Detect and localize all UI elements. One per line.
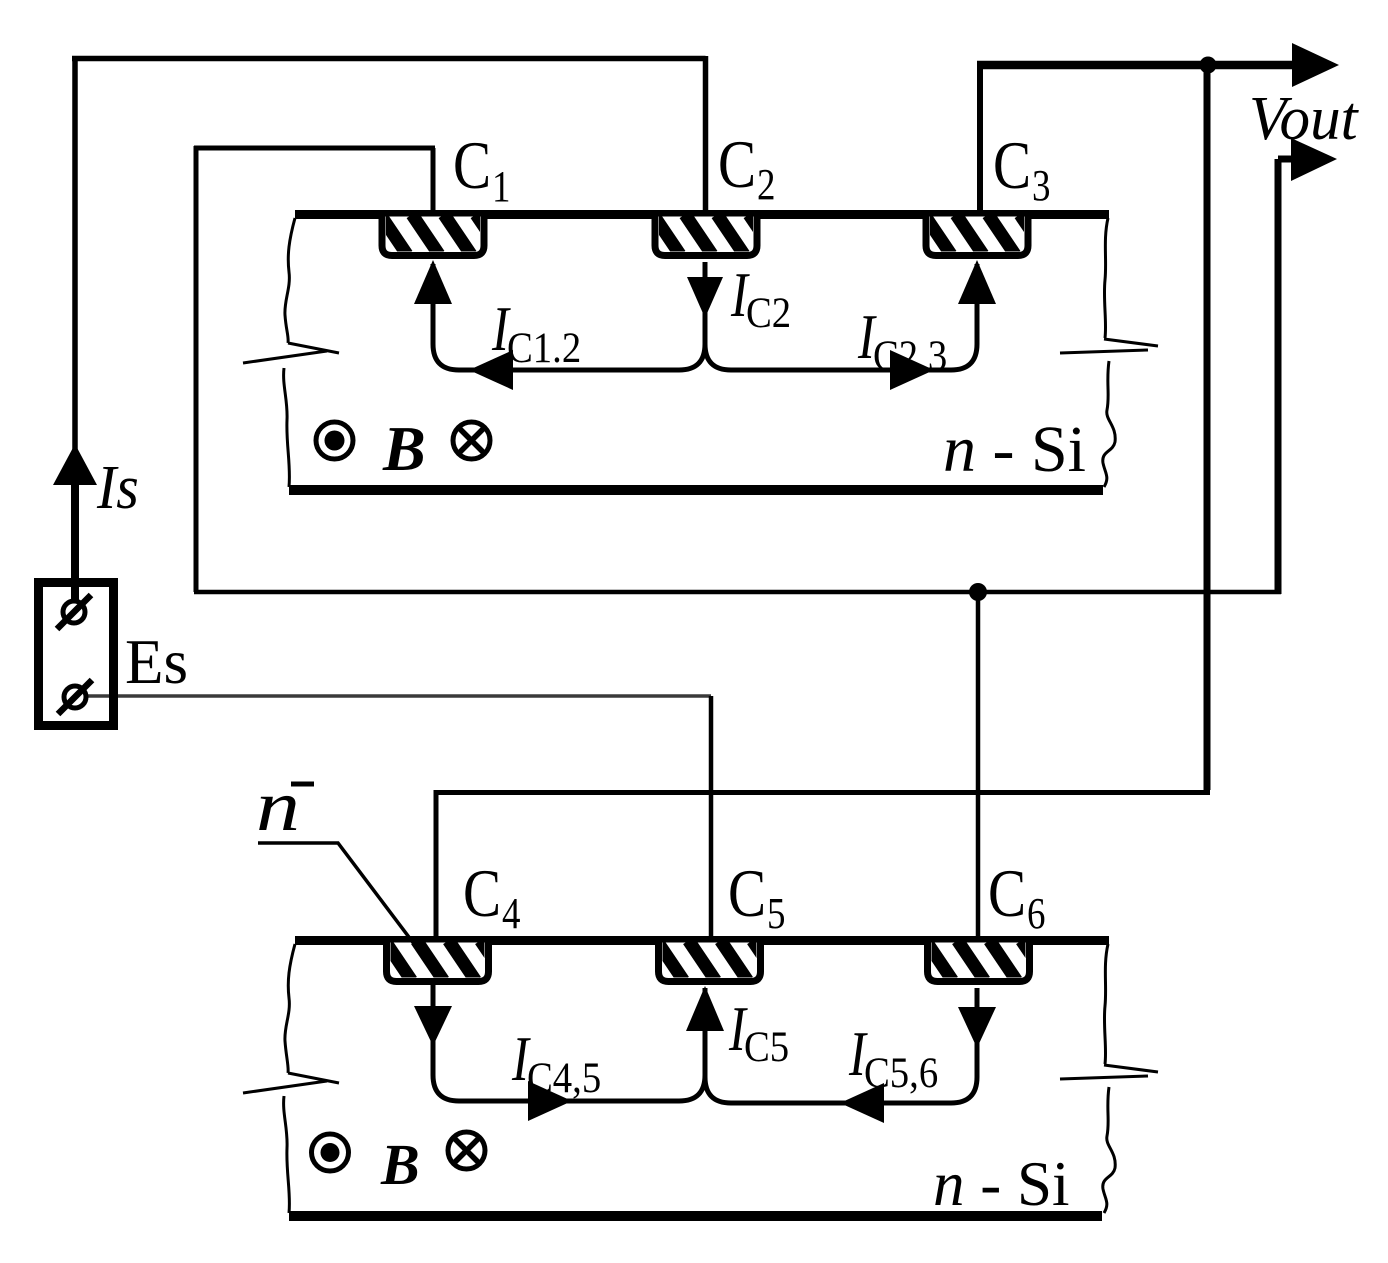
svg-text:C5,6: C5,6 <box>864 1049 938 1096</box>
terminal Es bottom <box>64 686 86 708</box>
wire junction down to C6 <box>976 592 981 944</box>
svg-text:C1.2: C1.2 <box>507 324 581 371</box>
svg-text:C: C <box>988 855 1026 931</box>
svg-text:C4,5: C4,5 <box>527 1054 601 1101</box>
n-Si block 2 right edge <box>1104 944 1108 1064</box>
wire C1 loop: C1 up over to left, down, across to Vout lower arrow <box>194 146 1297 594</box>
svg-text:C5: C5 <box>744 1023 789 1070</box>
current path C6 to C5 <box>705 988 977 1103</box>
break symbol block 1 right <box>1104 339 1158 346</box>
svg-text:C: C <box>993 127 1031 203</box>
arrow Vout lower terminal <box>1291 138 1337 181</box>
svg-text:B: B <box>380 1132 420 1197</box>
contact C6 <box>926 941 1049 982</box>
svg-text:C: C <box>728 855 766 931</box>
svg-text:Es: Es <box>125 627 188 697</box>
wire Es bottom terminal to C5 <box>88 694 711 698</box>
svg-text:n - Si: n - Si <box>943 413 1086 486</box>
svg-text:6: 6 <box>1027 889 1045 938</box>
svg-text:4: 4 <box>502 889 520 938</box>
svg-text:Vout: Vout <box>1249 84 1359 153</box>
junction node on wire to C6 <box>969 583 987 601</box>
svg-text:C2: C2 <box>746 289 791 336</box>
wire junction down and across to C4 <box>436 65 1210 944</box>
n-Si block 1 right edge <box>1104 218 1108 338</box>
svg-text:C: C <box>453 127 491 203</box>
n-Si block 1 left edge <box>285 218 295 343</box>
contact C3 <box>924 215 1047 256</box>
n-Si block 2 bottom surface <box>289 1211 1102 1221</box>
wire C3 to Vout upper arrow <box>977 65 1297 212</box>
break symbol block 1 left <box>288 343 339 353</box>
B field into-plane symbol block 1 <box>453 422 490 459</box>
n-Si block 2 top surface <box>295 936 1109 945</box>
arrow Is (current direction up) <box>53 444 97 485</box>
svg-text:3: 3 <box>1032 161 1050 210</box>
arrow I_C2 (down) <box>687 277 723 318</box>
contact C5 <box>657 941 780 982</box>
B field into-plane symbol block 2 <box>448 1132 485 1169</box>
current path C4 to C5 <box>433 984 705 1101</box>
arrow out of C6 (down) <box>958 1007 996 1048</box>
svg-text:C2.3: C2.3 <box>873 332 947 379</box>
arrow out of C4 (down) <box>414 1006 452 1046</box>
n-Si block 2 left edge <box>285 944 295 1073</box>
contact C2 <box>653 215 776 256</box>
terminal Es top <box>63 601 85 623</box>
n-Si block 1 top surface <box>295 210 1109 219</box>
current path C2 to C1 <box>433 262 705 370</box>
break symbol block 2 left <box>288 1073 339 1083</box>
svg-text:1: 1 <box>492 162 510 211</box>
junction node on Vout wire <box>1200 57 1217 74</box>
B field out-of-plane symbol block 2 <box>312 1134 349 1171</box>
svg-text:5: 5 <box>767 889 785 938</box>
contact C4 <box>385 941 508 982</box>
arrow Vout upper terminal <box>1292 43 1339 87</box>
arrow into C1 (up) <box>414 260 452 304</box>
arrow I_C1.2 (left) <box>469 350 513 390</box>
svg-text:Is: Is <box>96 453 139 523</box>
svg-text:B: B <box>382 413 426 484</box>
B field out-of-plane symbol block 1 <box>316 422 353 459</box>
break symbol block 2 right <box>1104 1065 1158 1072</box>
current path C2 to C3 <box>705 262 977 370</box>
n-Si block 1 bottom surface <box>289 485 1103 495</box>
svg-text:2: 2 <box>757 160 775 209</box>
arrow I_C2.3 (right) <box>890 350 934 390</box>
arrow I_C5,6 (left) <box>840 1083 884 1123</box>
svg-text:n - Si: n - Si <box>933 1149 1070 1219</box>
svg-text:n: n <box>256 766 300 846</box>
wire Is loop: Es top terminal to C2 <box>72 56 706 584</box>
arrow I_C4,5 (right) <box>528 1081 572 1121</box>
contact C1 <box>380 215 503 256</box>
arrow into C5 (up) <box>686 986 724 1031</box>
svg-text:C: C <box>718 126 756 202</box>
arrow into C3 (up) <box>958 260 996 304</box>
svg-text:C: C <box>463 855 501 931</box>
source Es box <box>39 583 114 726</box>
